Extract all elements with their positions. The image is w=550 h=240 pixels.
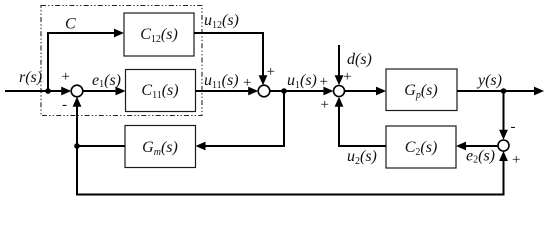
plus sign S2 left bbox=[243, 75, 251, 91]
wire node down and along bottom to S4 bottom bbox=[77, 146, 508, 195]
wire S1 to C11 bbox=[83, 87, 126, 96]
summer S1 bbox=[71, 85, 83, 97]
wire y branch down to summer S4 top bbox=[499, 91, 508, 140]
wire branch up to C12 bbox=[48, 29, 124, 91]
svg-text:d(s): d(s) bbox=[347, 51, 372, 68]
label r(s) bbox=[19, 69, 42, 86]
svg-text:u12(s): u12(s) bbox=[204, 12, 239, 31]
node Gm output branch bbox=[74, 143, 80, 149]
wire S3 to Gp bbox=[345, 87, 387, 96]
block C12 bbox=[124, 13, 194, 56]
plus sign S1 bbox=[62, 69, 70, 85]
dashed controller box C bbox=[41, 6, 202, 116]
wire u1 branch down to Gm input bbox=[196, 91, 285, 150]
svg-text:+: + bbox=[62, 69, 70, 85]
svg-text:-: - bbox=[511, 119, 516, 135]
wire r(s) input into summer S1 bbox=[5, 87, 71, 96]
label u11(s) bbox=[204, 72, 239, 91]
svg-text:+: + bbox=[512, 152, 520, 168]
plus sign S3 top right bbox=[343, 69, 351, 85]
svg-text:+: + bbox=[343, 69, 351, 85]
wire d(s) disturbance into S3 top bbox=[335, 45, 344, 85]
svg-text:+: + bbox=[320, 74, 328, 90]
svg-text:Gp(s): Gp(s) bbox=[404, 82, 437, 101]
label C bbox=[65, 16, 76, 33]
summer S3 bbox=[334, 86, 345, 97]
summer S2 bbox=[258, 85, 270, 97]
svg-text:C: C bbox=[65, 16, 76, 33]
block C11 bbox=[126, 70, 196, 112]
wire Gm output to node bbox=[77, 145, 125, 147]
plus sign S4 bottom right bbox=[512, 152, 520, 168]
plus sign S3 bottom left bbox=[321, 97, 329, 113]
label u2(s) bbox=[347, 148, 377, 167]
wire C11 output to summer S2 left bbox=[196, 87, 259, 96]
node branch on u1 wire bbox=[281, 88, 287, 94]
svg-text:u11(s): u11(s) bbox=[204, 72, 239, 91]
svg-text:u1(s): u1(s) bbox=[287, 72, 317, 91]
wire Gp output y(s) bbox=[457, 87, 544, 96]
svg-text:e1(s): e1(s) bbox=[92, 72, 121, 90]
wire C2 output u2 up into S3 bottom bbox=[335, 97, 386, 146]
svg-text:y(s): y(s) bbox=[476, 72, 502, 89]
wire S2 to summer S3 bbox=[270, 87, 333, 96]
svg-text:+: + bbox=[243, 75, 251, 91]
label e1(s) bbox=[92, 72, 121, 90]
label u12(s) bbox=[204, 12, 239, 31]
label d(s) bbox=[347, 51, 372, 68]
block Gp bbox=[386, 69, 457, 111]
svg-text:r(s): r(s) bbox=[19, 69, 42, 86]
wire S4 output to C2 bbox=[456, 142, 498, 151]
svg-text:Gm(s): Gm(s) bbox=[142, 139, 178, 158]
svg-text:+: + bbox=[321, 97, 329, 113]
label e2(s) bbox=[466, 148, 495, 166]
label u1(s) bbox=[287, 72, 317, 91]
node branch on r wire bbox=[45, 88, 51, 94]
plus sign S2 top bbox=[267, 64, 275, 80]
block C2 bbox=[386, 126, 456, 168]
summer S4 bbox=[498, 140, 509, 151]
block Gm bbox=[125, 126, 196, 168]
svg-text:-: - bbox=[62, 97, 67, 113]
node branch on y wire bbox=[501, 88, 507, 94]
svg-text:+: + bbox=[267, 64, 275, 80]
minus sign S4 bbox=[511, 119, 516, 135]
svg-text:C2(s): C2(s) bbox=[405, 139, 438, 158]
minus sign S1 bbox=[62, 97, 67, 113]
svg-text:u2(s): u2(s) bbox=[347, 148, 377, 167]
wire C12 output to summer S2 top bbox=[194, 33, 267, 85]
wire node up into S1 bottom bbox=[73, 97, 82, 146]
label y(s) bbox=[476, 72, 502, 89]
svg-text:e2(s): e2(s) bbox=[466, 148, 495, 166]
plus sign S3 left bbox=[320, 74, 328, 90]
